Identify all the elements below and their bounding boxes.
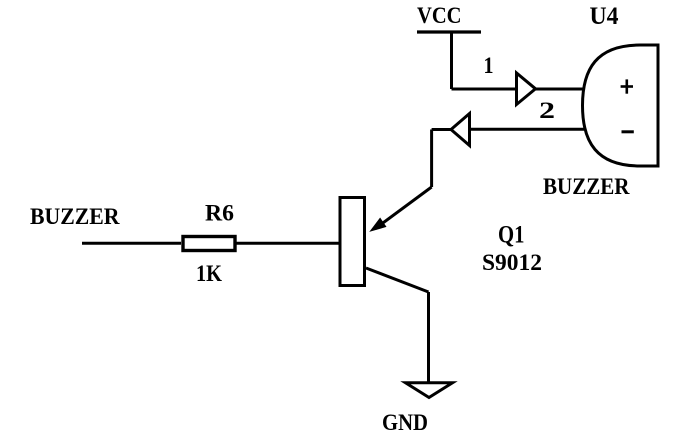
svg-text:U4: U4 [590, 3, 619, 30]
svg-text:Q1: Q1 [498, 222, 525, 249]
wire left to resistor [82, 242, 181, 245]
resistor R6 body [183, 237, 235, 251]
collector wire down [427, 292, 430, 383]
wire VCC to buffer 1 [452, 88, 517, 91]
buzzer minus terminal [622, 130, 634, 133]
svg-text:1K: 1K [196, 261, 223, 287]
svg-text:1: 1 [484, 53, 494, 79]
svg-text:R6: R6 [205, 201, 234, 227]
buffer arrow 2 (left-pointing) [451, 114, 470, 146]
emitter arrowhead [371, 218, 386, 231]
svg-text:GND: GND [382, 410, 428, 436]
wire buffer 2 to corner [432, 128, 451, 131]
buzzer U4 body [583, 45, 659, 166]
svg-text:S9012: S9012 [482, 250, 542, 276]
wire from VCC bar down [450, 32, 453, 89]
VCC power bar [417, 30, 481, 33]
svg-text:BUZZER: BUZZER [30, 204, 120, 230]
svg-text:2: 2 [539, 98, 555, 124]
svg-text:VCC: VCC [417, 3, 462, 29]
wire buzzer to buffer 2 [470, 128, 588, 131]
wire resistor to transistor base [236, 242, 339, 245]
collector wire diagonal [366, 268, 429, 292]
wire corner down [430, 130, 433, 188]
wire buffer 1 to buzzer [536, 88, 586, 91]
buzzer plus terminal [621, 79, 633, 93]
buffer arrow 1 (right-pointing) [517, 73, 536, 105]
wire diagonal to transistor emitter [375, 187, 432, 229]
svg-text:BUZZER: BUZZER [543, 174, 630, 200]
transistor Q1 body bar [340, 198, 365, 286]
ground symbol [406, 383, 453, 398]
